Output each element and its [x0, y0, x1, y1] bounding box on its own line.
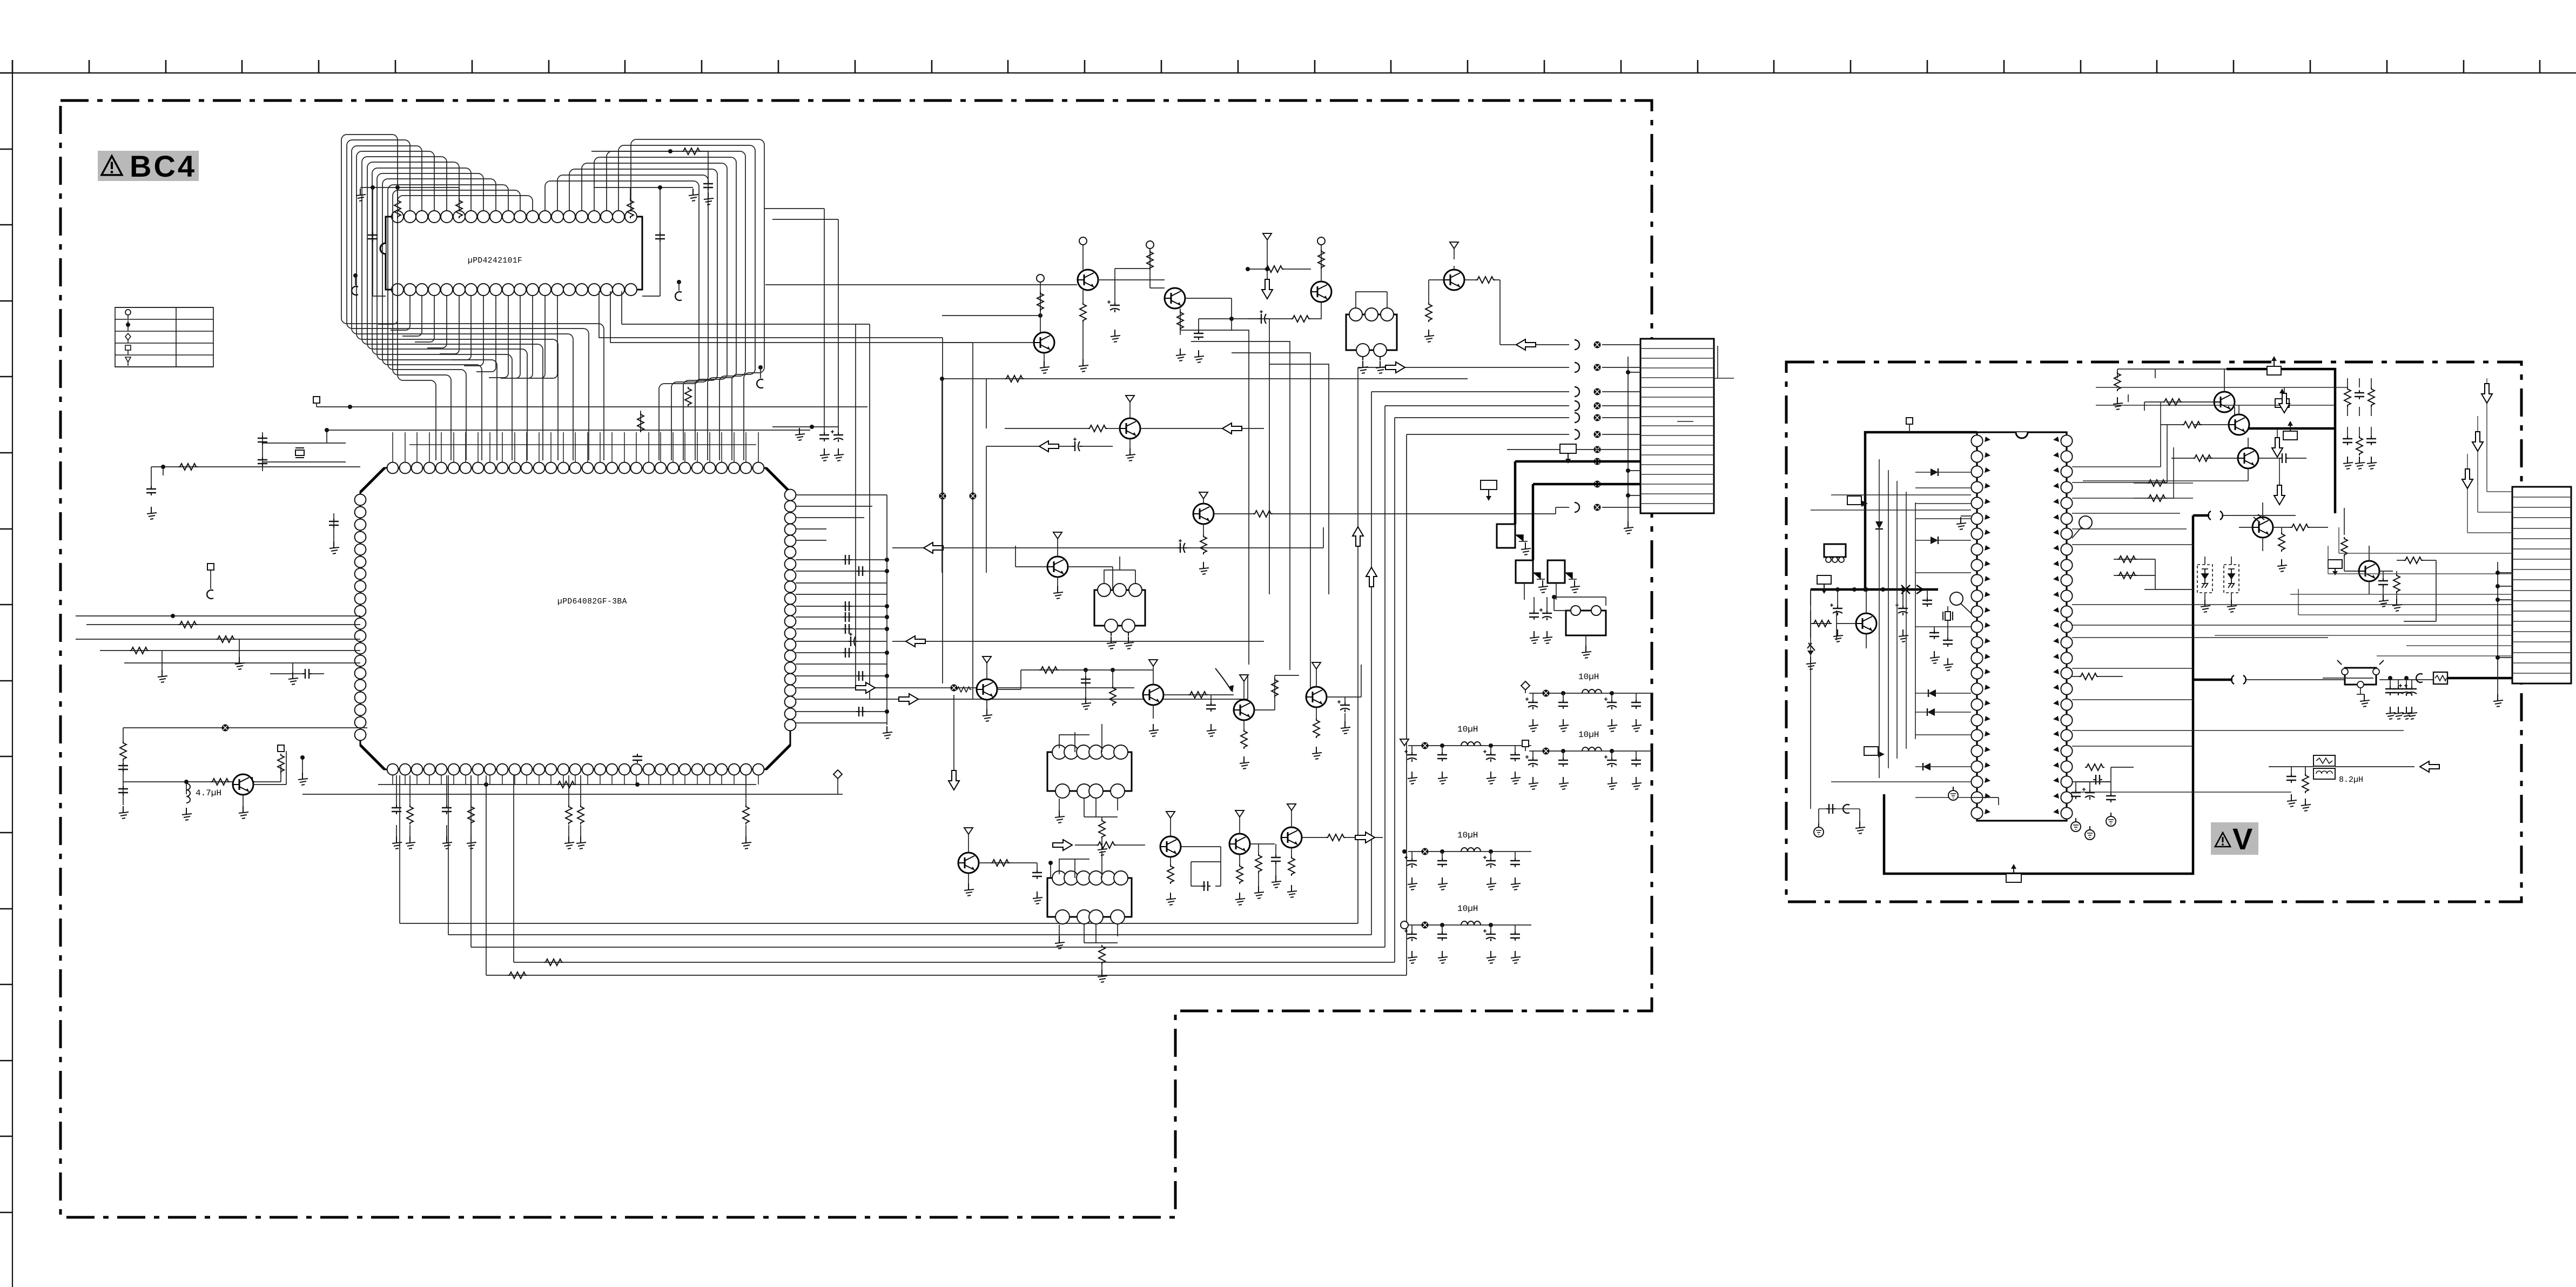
transistor Q10: [1143, 660, 1234, 736]
svg-text:µPD4242101F: µPD4242101F: [468, 257, 522, 265]
down arrows inner V: [2272, 387, 2290, 505]
terminal box V4: [1864, 747, 1885, 758]
transistor Q21 V: [2171, 438, 2306, 481]
capacitor C10 top left of U2: [329, 513, 339, 554]
caps and crystal V: [1922, 589, 1953, 671]
component box BX1: [1497, 461, 1531, 555]
capacitor pair top right of U2: [772, 425, 844, 461]
thick bus horizontal V left: [1811, 588, 1938, 591]
row net with right arrow row2: [1385, 362, 1405, 373]
connector CN1 pin arcs and terminals: [1507, 340, 1640, 512]
wire bundle U1 right wrap: [545, 139, 764, 460]
net vertical from Q2 region: [942, 379, 986, 573]
label V: [2211, 822, 2258, 856]
long vertical net pair mid: [824, 209, 838, 427]
resistor and capacitor right of U1: [594, 185, 763, 388]
U3 bottom caps cluster: [1971, 764, 2134, 840]
filter block FL4: [1047, 851, 1132, 982]
wire pair mid verticals: [622, 291, 870, 699]
wire row arrows right D: [870, 675, 1248, 705]
transistor Q19 V: [2144, 369, 2235, 425]
boxed resistor at connector bottom: [2323, 672, 2512, 719]
resistor cap网络 right V: [2343, 378, 2377, 469]
connector CN2 body: [2512, 487, 2571, 683]
net bus over U2 top comb: [409, 444, 756, 445]
gnd stub left under U2: [298, 755, 308, 785]
transistor Q16: [1281, 804, 1383, 897]
wire long row to arrow U2 right B: [892, 636, 1264, 647]
net row y1470 junctions: [824, 794, 843, 795]
connector CN1 body: [1640, 339, 1714, 513]
connector 3pin CN3: [1824, 544, 1846, 562]
small terminal box TB1: [1481, 480, 1497, 501]
transistor Q2: [942, 274, 1054, 373]
net row to Q2 stack: [942, 313, 1042, 318]
net row y753 under U1: [313, 387, 867, 409]
LC filter 10uH row B: [1402, 830, 1531, 890]
thick net top right V: [2227, 369, 2335, 513]
transistor Q9: [977, 656, 1153, 721]
diamond terminal mid: [302, 770, 842, 794]
diode pairs dashed boxes: [2197, 557, 2212, 612]
diodes left of U3: [1931, 468, 1938, 476]
transistor Q6: [1005, 396, 1264, 461]
terminal box V3: [1817, 575, 1831, 594]
transistor Q12: [1306, 662, 1361, 759]
transistor Q22 V right: [2341, 508, 2436, 621]
transistor Q7: [1193, 492, 1569, 574]
component box BX2: [1516, 560, 1548, 600]
electrolytic link to Q4: [1232, 302, 1321, 324]
small terminal box TB2: [1560, 444, 1576, 464]
IC U3 left pins: [1971, 435, 1990, 819]
legend table: [115, 307, 213, 367]
long horizontal nets upper mid: [764, 209, 838, 219]
IC U2 bottom pins: [387, 764, 764, 775]
transistor Q18 V left: [1837, 587, 1876, 648]
nets into connector upper: [1714, 346, 1734, 378]
resistor pair upper V: [2134, 480, 2193, 501]
electrolytic caps V left: [1830, 587, 1908, 642]
junction marks on bus: [1852, 585, 1923, 594]
thick net gap symbols B: [2193, 675, 2345, 684]
terminal box V2: [1847, 496, 1868, 507]
top-fed mid verticals: [1181, 319, 1329, 697]
transistor Q17 bottom left: [233, 745, 286, 819]
wire row arrows right C: [856, 682, 1134, 693]
svg-text:µPD64082GF-3BA: µPD64082GF-3BA: [557, 598, 627, 606]
connector CN2 wires: [2215, 378, 2512, 656]
caps near FL5: [1529, 597, 1552, 643]
transistor Q20 V: [2161, 405, 2249, 435]
capacitor row right of U2 with bus: [796, 495, 892, 739]
net with crossed terminals: [939, 493, 977, 500]
terminal box mid V: [2328, 560, 2342, 575]
BC4 block dash-dot border: [60, 100, 1652, 1217]
transistor Q23 V mid: [2239, 502, 2328, 572]
long V nets from left: [1811, 387, 2348, 510]
IC U2 bottom pin stubs: [393, 775, 758, 785]
connector CN2 gnd bus: [2493, 562, 2512, 707]
arrow right into filter row: [1053, 840, 1145, 850]
IC U2 top pin stubs: [393, 432, 758, 462]
terminal bottom center V: [2006, 864, 2021, 882]
LC filter 10uH row A: [1400, 725, 1531, 784]
filter block FL2: [1094, 557, 1145, 649]
wire U1 pin to long vertical B: [610, 291, 973, 699]
connector CN1 ground bus: [1624, 357, 1640, 534]
thick supply net top U3: [1865, 432, 1977, 589]
wire bundle U1 left wrap: [341, 135, 604, 460]
LC filter 10uH row C: [1401, 904, 1531, 963]
decoupling caps under U2: [392, 775, 751, 849]
down arrow mid: [949, 695, 959, 790]
resistors on bottom nets: [508, 959, 563, 978]
transistor Q11 with pointer arrow: [1215, 668, 1299, 769]
transistor Q13 lower left: [958, 828, 1054, 904]
crystal X1 left of U2: [258, 428, 810, 471]
box terminals top V: [2267, 356, 2281, 375]
resistor top right of U1: [591, 148, 714, 205]
transistor Q15: [1229, 810, 1281, 905]
delay filter box V: [2337, 660, 2447, 719]
nets U3 right to transistors: [2072, 402, 2193, 545]
left input nets to U2: [76, 614, 360, 685]
transistor Q5: [1424, 242, 1500, 345]
8.2uH filter box: [2269, 755, 2439, 811]
long bottom nested nets rising to connector rows: [400, 367, 1569, 975]
ruler top ticks: [12, 60, 2540, 73]
IC U1 top pins: [392, 211, 637, 223]
transistor Q1: [1078, 237, 1165, 372]
wire U1 pin to long vertical A: [599, 291, 943, 683]
resistor and capacitor left of U1: [352, 185, 462, 296]
bottom left cap net V: [1814, 804, 1865, 837]
wire bundle U1 bottom stubs: [378, 296, 557, 378]
thick net to connector A: [1515, 460, 1640, 463]
IC U3 body vertical DIP: [1977, 432, 2067, 821]
transistor Q3: [1107, 241, 1234, 363]
power triangle and down arrow mid: [1262, 233, 1273, 299]
filter block FL3: [1047, 724, 1132, 855]
component box BX3: [1548, 560, 1580, 600]
IC U2 left pins: [355, 494, 366, 741]
resistor dividers top V: [2113, 369, 2227, 411]
callout balloon A: [2072, 516, 2092, 538]
inductor 4.7uH input network: [118, 725, 367, 821]
resistor network left V: [1806, 589, 1832, 669]
resistor row y1252: [2072, 673, 2123, 680]
terminal box V1: [1906, 418, 1913, 432]
earth circle mid: [1948, 787, 1958, 800]
LC filter 10uH row D: [1521, 672, 1652, 732]
net long row y701: [940, 376, 1468, 382]
transistor Q8: [1015, 532, 1113, 599]
up arrows on mid verticals: [1353, 527, 1377, 587]
svg-text:4.7µH: 4.7µH: [196, 788, 221, 798]
filter box with top circles FL5: [1552, 595, 1606, 658]
gnd stub near U3 left top: [1956, 516, 1971, 529]
callout balloon B: [1950, 592, 1971, 613]
resistor row under U2: [378, 754, 756, 788]
wire long row to arrow U2 right A: [892, 527, 1323, 553]
IC U2 µPD64082GF-3BA body: [360, 468, 790, 769]
transistor Q4: [1246, 237, 1331, 302]
ruler left ticks: [0, 73, 12, 1212]
net U1 bundle to Q1 base: [765, 284, 1077, 285]
resistor R11 above U2: [637, 411, 644, 432]
IC U1 bottom pins: [392, 284, 637, 296]
ruler left line: [12, 60, 13, 1287]
row net with left arrow to connector row1: [1500, 339, 1569, 350]
filter block FL1: [1346, 292, 1397, 373]
IC U2 top pins: [387, 462, 764, 474]
cluster left of U2 top: [146, 464, 360, 519]
svg-text:10µH: 10µH: [1457, 830, 1478, 840]
resistor pair mid V: [2114, 556, 2193, 589]
svg-text:V: V: [2232, 822, 2252, 856]
wire grid left of U3: [1811, 459, 1971, 809]
LC filter 10uH row E: [1522, 730, 1652, 789]
IC U1 µPD4242101F body: [380, 217, 642, 290]
ruler top line: [0, 72, 2576, 73]
down arrows V right: [2462, 384, 2492, 488]
svg-text:10µH: 10µH: [1457, 904, 1478, 914]
nets U3 right lower: [2072, 668, 2404, 792]
thick bottom frame V: [1884, 515, 2193, 874]
IC U3 right pins: [2053, 435, 2073, 819]
svg-text:10µH: 10µH: [1457, 725, 1478, 734]
thick net to connector B: [1533, 484, 1640, 560]
svg-text:BC4: BC4: [130, 149, 197, 183]
U3 right mid rows: [2072, 605, 2512, 638]
svg-text:8.2µH: 8.2µH: [2339, 775, 2363, 785]
electrolytic row with left arrow: [986, 438, 1113, 573]
label BC4: [98, 149, 199, 183]
IC U2 right pins: [785, 490, 796, 731]
transistor Q14: [956, 687, 1221, 905]
svg-text:10µH: 10µH: [1578, 672, 1599, 682]
V block dash-dot border: [1786, 362, 2521, 902]
thick net gap symbols A: [2193, 511, 2296, 520]
svg-text:10µH: 10µH: [1578, 730, 1599, 740]
left net hook terminal: [207, 564, 214, 599]
